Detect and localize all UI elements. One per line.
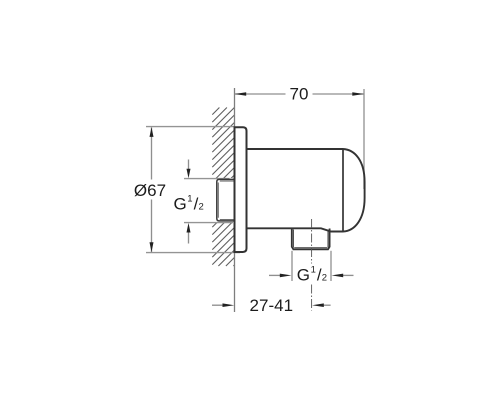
svg-text:Ø67: Ø67 [134, 181, 166, 200]
arrow dia67 up [150, 127, 154, 137]
arrow 70 right [352, 92, 364, 96]
svg-text:1: 1 [187, 194, 192, 205]
extension line G12 wall bottom [184, 222, 233, 224]
arrow dia67 down [150, 242, 154, 252]
body barrel top line [247, 148, 344, 150]
G12 wall arrow bottom [188, 231, 190, 244]
extension line G12 wall top [184, 178, 230, 180]
dim line 70 [235, 93, 286, 95]
dim line outlet G12 right [342, 274, 354, 276]
extension line dim70 right [363, 89, 365, 189]
svg-text:70: 70 [290, 85, 309, 104]
dim line dia67 [151, 128, 153, 180]
wall face line [234, 88, 236, 312]
flange escutcheon [235, 127, 247, 252]
arrow 70 left [235, 92, 247, 96]
extension line dia67 top [146, 126, 234, 128]
cap joint line [342, 149, 344, 232]
svg-text:G: G [297, 266, 310, 285]
svg-text:1: 1 [311, 265, 316, 276]
inlet thread square [217, 179, 235, 221]
dim line outlet G12 left [269, 274, 281, 276]
svg-text:G: G [174, 195, 187, 214]
dome end cap [343, 149, 365, 232]
dim line 27-41 right [323, 304, 331, 306]
outlet stub outline [292, 229, 330, 250]
extension line dia67 bottom [146, 252, 240, 254]
outlet stub thread lines [293, 230, 328, 248]
svg-text:2: 2 [322, 273, 327, 284]
dim line 27-41 left [212, 304, 224, 306]
body barrel bottom line [247, 228, 344, 231]
svg-text:27-41: 27-41 [250, 296, 293, 315]
svg-text:2: 2 [199, 202, 204, 213]
centerline outlet [311, 219, 313, 311]
extension lines outlet G12 [291, 251, 293, 281]
G12 wall arrow top [188, 160, 190, 171]
hatch cutout for inlet thread [212, 178, 235, 223]
wall hatching [212, 108, 234, 267]
